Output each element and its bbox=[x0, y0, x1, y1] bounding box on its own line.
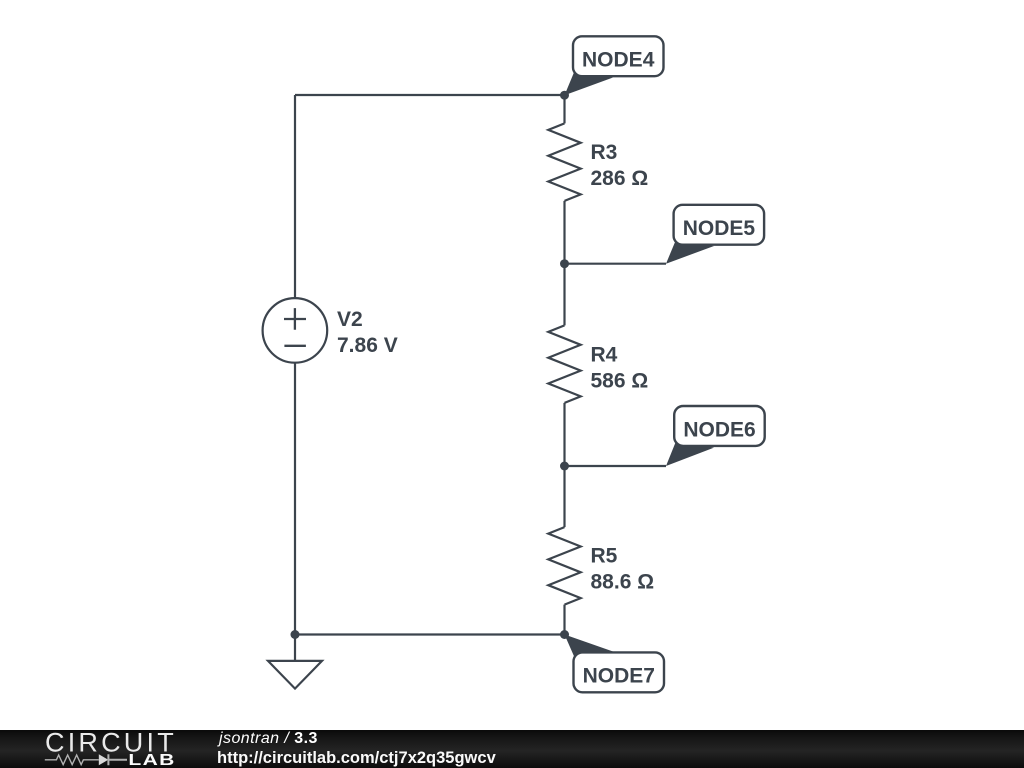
wire V2 bottom to bottom rail bbox=[294, 363, 296, 635]
junction node at ground rail bbox=[291, 630, 300, 639]
logo diode bbox=[99, 754, 108, 765]
svg-text:V2: V2 bbox=[337, 308, 363, 331]
junction node at NODE7 bbox=[560, 630, 569, 639]
wire R4 bottom to NODE6 bbox=[563, 403, 565, 466]
junction node at NODE6 bbox=[560, 462, 569, 471]
wire ground stub bbox=[294, 635, 296, 662]
node flag NODE6 box bbox=[674, 406, 765, 446]
junction node at NODE5 bbox=[560, 259, 569, 268]
resistor R4 zigzag bbox=[548, 325, 580, 403]
svg-text:R5: R5 bbox=[591, 545, 618, 568]
logo resistor squiggle bbox=[45, 755, 99, 765]
svg-text:NODE4: NODE4 bbox=[582, 49, 655, 72]
svg-text:88.6 Ω: 88.6 Ω bbox=[591, 571, 655, 594]
wire top horizontal (NODE4 net) bbox=[295, 94, 565, 96]
svg-text:LAB: LAB bbox=[128, 750, 175, 768]
node flag NODE5 box bbox=[674, 205, 765, 245]
svg-text:R4: R4 bbox=[591, 343, 618, 366]
svg-text:7.86 V: 7.86 V bbox=[337, 334, 398, 357]
wire R3 bottom to NODE5 bbox=[563, 201, 565, 264]
wire bottom horizontal (NODE7 net) bbox=[295, 633, 565, 635]
footer title text bbox=[219, 731, 318, 747]
wire R5 bottom to NODE7 bbox=[563, 605, 565, 635]
node flag NODE4 tail bbox=[565, 70, 614, 95]
wire NODE5 horizontal bbox=[565, 263, 667, 265]
footer bar bbox=[0, 730, 1024, 768]
resistor R5 zigzag bbox=[548, 527, 580, 605]
junction node at NODE4 bbox=[560, 91, 569, 100]
svg-text:286 Ω: 286 Ω bbox=[591, 167, 649, 190]
resistor R3 zigzag bbox=[548, 123, 580, 200]
svg-text:NODE5: NODE5 bbox=[683, 217, 756, 240]
wire NODE5 to R4 top bbox=[563, 264, 565, 326]
node flag NODE7 tail bbox=[565, 635, 614, 659]
svg-text:R3: R3 bbox=[591, 141, 618, 164]
V2 plus sign bbox=[284, 308, 306, 330]
svg-text:NODE7: NODE7 bbox=[583, 665, 655, 688]
svg-text:586 Ω: 586 Ω bbox=[591, 369, 649, 392]
wire left vertical to V2 top bbox=[294, 95, 296, 298]
node flag NODE6 tail bbox=[666, 440, 714, 466]
footer url text bbox=[217, 750, 496, 767]
node flag NODE5 tail bbox=[666, 239, 714, 264]
voltage source V2 circle bbox=[263, 298, 328, 363]
ground symbol bbox=[268, 661, 322, 689]
wire NODE6 to R5 top bbox=[563, 466, 565, 527]
V2 minus sign bbox=[284, 345, 306, 347]
wire NODE6 horizontal bbox=[565, 465, 667, 467]
CircuitLab logo bbox=[0, 730, 200, 768]
node flag NODE7 box bbox=[574, 652, 665, 692]
node flag NODE4 box bbox=[573, 36, 664, 76]
svg-text:NODE6: NODE6 bbox=[683, 418, 755, 441]
wire NODE4 to R3 top bbox=[563, 95, 565, 123]
